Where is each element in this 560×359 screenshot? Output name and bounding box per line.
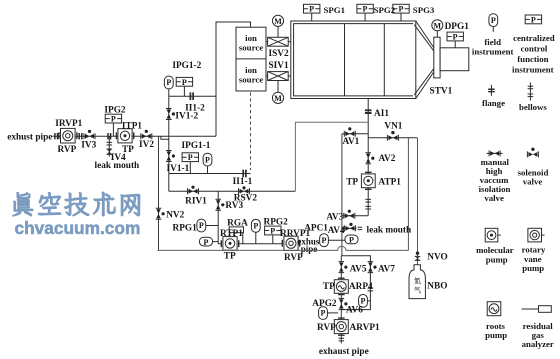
motor M of SIV1 <box>272 81 283 104</box>
svg-text:P: P <box>309 5 314 14</box>
chamber taper outer walls <box>416 21 434 99</box>
svg-text:M: M <box>434 21 442 30</box>
svg-text:RVP: RVP <box>284 253 303 263</box>
valve IV3 <box>84 130 95 139</box>
nitrogen bottle NBO <box>409 265 425 299</box>
svg-text:M: M <box>274 17 282 26</box>
gauge SPG1 centralized P <box>304 4 320 21</box>
svg-text:ion: ion <box>245 65 257 75</box>
svg-text:RVP: RVP <box>58 145 77 155</box>
wire AV1 branch <box>342 133 368 135</box>
svg-text:P: P <box>453 33 458 42</box>
valve IV4 <box>107 149 113 154</box>
svg-text:AV1: AV1 <box>342 137 359 147</box>
legend manual valve symbol <box>487 150 503 156</box>
instrument RPG2 centralized P <box>265 226 281 244</box>
instrument P pill (APC1 link) <box>345 235 358 245</box>
legend rotary vane pump symbol <box>528 228 545 242</box>
instrument IPG1-2 centralized P <box>176 77 192 86</box>
svg-text:NVO: NVO <box>427 252 447 262</box>
rotary vane pump ARVP1 (RVP) <box>334 318 348 335</box>
svg-text:NBO: NBO <box>427 282 447 292</box>
svg-text:SPG2: SPG2 <box>374 5 396 15</box>
wire dashed ion source to II1-1 <box>250 93 252 171</box>
svg-text:TP: TP <box>323 282 335 292</box>
svg-text:AV4: AV4 <box>328 226 345 236</box>
svg-text:ion: ion <box>245 33 257 43</box>
svg-text:RPG1: RPG1 <box>173 223 198 233</box>
svg-text:II1-1: II1-1 <box>233 177 253 187</box>
valve AV6 <box>339 298 348 309</box>
chamber taper inner walls <box>414 25 434 95</box>
ion source box <box>236 27 266 91</box>
svg-text:valve: valve <box>484 193 504 203</box>
svg-text:RIV1: RIV1 <box>185 196 207 206</box>
svg-text:P: P <box>491 16 496 25</box>
wire RV3 vertical to RTP1 <box>218 191 221 244</box>
gate valve SIV1 <box>266 72 291 81</box>
instrument field P (bypass) <box>359 295 371 308</box>
svg-text:bellows: bellows <box>519 102 547 112</box>
wire AV4 stub <box>342 227 357 229</box>
svg-text:ATP1: ATP1 <box>378 177 401 187</box>
svg-text:RVP: RVP <box>317 323 336 333</box>
svg-text:ARVP1: ARVP1 <box>350 323 380 333</box>
svg-text:SPG1: SPG1 <box>324 5 346 15</box>
valve NV2 <box>156 208 165 219</box>
rotary vane pump IRVP1 (RVP) <box>59 128 77 143</box>
svg-text:NV2: NV2 <box>166 210 184 220</box>
valve NVO solenoid <box>415 252 421 261</box>
vacuum chamber inner wall <box>294 24 414 96</box>
svg-text:DPG1: DPG1 <box>445 22 470 32</box>
svg-text:control: control <box>521 43 548 53</box>
svg-text:centralized: centralized <box>513 33 555 43</box>
svg-text:AV6: AV6 <box>346 305 363 315</box>
svg-text:RGA: RGA <box>227 218 248 228</box>
valve AV2 <box>365 153 374 164</box>
wire VN1 branch <box>368 137 417 139</box>
legend label molecular pump <box>476 245 514 264</box>
instrument IPG2 stem <box>112 123 114 136</box>
chamber divider 1 <box>344 24 346 96</box>
motor M of STV1 <box>432 20 443 37</box>
vacuum chamber outer wall <box>291 21 416 99</box>
legend label field instrument <box>472 37 514 57</box>
legend flange symbol <box>488 85 494 96</box>
instrument APC1 field P <box>320 234 345 247</box>
svg-text:ITP1: ITP1 <box>122 121 142 131</box>
legend field instrument symbol <box>489 14 498 32</box>
wire trunk B vertical <box>168 89 170 191</box>
svg-text:P: P <box>270 227 275 236</box>
svg-text:IV2: IV2 <box>139 140 154 150</box>
rotary vane pump RRVP1 (RVP) <box>282 236 299 250</box>
residual gas analyzer RGA <box>229 227 243 244</box>
svg-text:TP: TP <box>224 252 236 262</box>
wire RTP1 to RRVP1 <box>239 243 282 245</box>
valve AV4 <box>344 223 355 232</box>
svg-text:field: field <box>484 37 501 47</box>
valve IV1-2 <box>166 109 175 120</box>
svg-text:IV1-1: IV1-1 <box>167 164 190 174</box>
svg-text:valve: valve <box>523 177 543 187</box>
svg-text:STV1: STV1 <box>430 87 453 97</box>
svg-text:P: P <box>205 155 210 164</box>
legend roots pump symbol <box>487 302 501 316</box>
flange AI1 <box>365 110 372 113</box>
flange on exhaust wire <box>55 133 58 139</box>
legend centralized P symbol <box>525 15 541 24</box>
svg-text:pipe: pipe <box>301 244 318 254</box>
svg-text:P: P <box>253 222 258 231</box>
svg-text:IV3: IV3 <box>81 141 96 151</box>
svg-text:AV7: AV7 <box>378 265 395 275</box>
svg-text:exhaust pipe: exhaust pipe <box>319 347 369 357</box>
flange II1-1 <box>243 170 246 178</box>
svg-text:leak mouth: leak mouth <box>95 161 141 171</box>
wire RSV2 rail <box>169 190 296 192</box>
wire jog to trunk B <box>161 136 169 139</box>
legend label rotary vane pump <box>522 245 546 273</box>
svg-text:P: P <box>363 5 368 14</box>
svg-text:P: P <box>166 78 171 87</box>
valve AV5 <box>339 262 348 273</box>
leak mouth mark AV4 <box>358 227 363 229</box>
svg-text:flange: flange <box>482 98 505 108</box>
watermark 真空技术网 (vector strokes) <box>13 192 140 216</box>
legend residual gas analyzer symbol <box>522 306 552 313</box>
svg-text:chvacuum.com: chvacuum.com <box>15 218 141 238</box>
svg-text:IPG1-1: IPG1-1 <box>182 141 211 151</box>
molecular pump ITP1 (TP) <box>116 129 133 143</box>
gauge SPG2 centralized P <box>357 4 373 21</box>
valve VN1 solenoid <box>387 131 398 141</box>
svg-text:IPG1-2: IPG1-2 <box>172 61 201 71</box>
duct after STV1 <box>440 48 469 71</box>
svg-text:IPG2: IPG2 <box>104 106 126 116</box>
flange exhaust (ARVP1) <box>339 338 345 341</box>
wire IPG1-1 instrument line <box>169 162 251 174</box>
valve RIV1 <box>188 186 199 195</box>
svg-text:ISV2: ISV2 <box>269 49 290 59</box>
wire IV4 branch <box>108 136 110 156</box>
legend label centralized control function instrument <box>512 33 555 74</box>
svg-text:P: P <box>321 309 326 318</box>
svg-text:AI1: AI1 <box>374 109 389 119</box>
flange II1-2 <box>190 92 193 100</box>
svg-text:P: P <box>361 297 366 306</box>
legend label roots pump <box>485 321 507 340</box>
molecular pump ATP1 (TP) <box>361 172 375 189</box>
svg-text:AV3: AV3 <box>326 213 343 223</box>
flange before ITP1 <box>108 133 111 139</box>
instrument P pill at RTP1 inlet <box>199 237 218 247</box>
svg-text:RV3: RV3 <box>225 201 243 211</box>
wire NVO drop <box>417 138 419 266</box>
bellows IV4 branch <box>107 142 113 145</box>
svg-text:P: P <box>199 221 204 230</box>
instrument IPG1-2 field P <box>164 76 173 89</box>
legend solenoid valve symbol <box>527 148 538 158</box>
svg-text:P: P <box>204 238 209 247</box>
gauge SPG3 centralized P <box>393 4 409 21</box>
svg-text:pump: pump <box>486 254 508 264</box>
svg-text:M: M <box>274 94 282 103</box>
valve AV1 <box>344 127 355 136</box>
bellows on bypass <box>368 288 374 291</box>
instrument IPG1-1 field P <box>203 153 212 166</box>
svg-text:P: P <box>111 115 116 124</box>
svg-text:RTP1: RTP1 <box>220 229 243 239</box>
motor M of ISV2 <box>272 15 283 37</box>
svg-text:source: source <box>239 75 263 85</box>
svg-text:exhust pipe: exhust pipe <box>7 133 52 143</box>
wire right drop to rail <box>407 138 409 251</box>
wire ion source feed <box>216 22 251 136</box>
valve IV1-1 <box>166 151 175 162</box>
valve AV7 <box>368 262 377 273</box>
wire trunk A down-left <box>158 136 160 250</box>
svg-text:pump: pump <box>522 263 544 273</box>
svg-text:leak mouth: leak mouth <box>367 226 413 236</box>
svg-text:SPG3: SPG3 <box>413 5 435 15</box>
svg-text:pump: pump <box>485 330 507 340</box>
svg-text:AV5: AV5 <box>350 265 367 275</box>
svg-text:function: function <box>517 54 548 64</box>
instrument RPG2 field P <box>251 219 260 243</box>
wire AV branch vertical <box>341 134 343 256</box>
wire long thin instrument line to RSV2 rail <box>295 122 368 191</box>
legend bellows symbol <box>528 82 534 100</box>
wire main horizontal left rail <box>53 135 217 137</box>
instrument APG2 field P <box>319 307 338 320</box>
svg-text:P: P <box>182 78 187 87</box>
svg-text:P: P <box>398 5 403 14</box>
svg-text:TP: TP <box>122 145 134 155</box>
valve RV3 <box>215 199 224 210</box>
wire bottom rail with hop <box>158 246 409 250</box>
svg-text:analyzer: analyzer <box>522 339 554 349</box>
svg-text:APC1: APC1 <box>304 224 328 234</box>
valve RSV2 <box>239 186 250 194</box>
valve AV3 <box>344 210 355 219</box>
wire bypass header <box>341 256 370 310</box>
svg-text:P: P <box>349 236 354 245</box>
chamber divider 2 <box>383 24 385 96</box>
svg-text:P: P <box>322 236 327 245</box>
instrument IPG2 (centralized P) <box>105 114 121 123</box>
roots pump ARP4 <box>334 278 348 294</box>
legend label manual high vacuum isolation valve <box>479 157 511 203</box>
svg-text:IRVP1: IRVP1 <box>55 119 82 129</box>
flange after IRVP1 <box>79 133 82 139</box>
molecular pump RTP1 (TP) <box>221 237 238 251</box>
bellows below ATP1 <box>365 199 371 209</box>
svg-text:source: source <box>239 43 263 53</box>
legend label solenoid valve <box>518 167 549 186</box>
gate valve STV1 bar <box>434 37 440 78</box>
svg-text:VN1: VN1 <box>384 121 402 131</box>
legend molecular pump symbol <box>485 228 501 242</box>
svg-text:SIV1: SIV1 <box>269 61 290 71</box>
wire ATP1 trunk <box>367 138 369 216</box>
instrument DPG1 centralized P <box>447 32 463 48</box>
svg-text:P: P <box>531 15 536 24</box>
gate valve ISV2 <box>266 37 291 46</box>
svg-text:P: P <box>188 153 193 162</box>
legend label residual gas analyzer <box>522 321 554 349</box>
svg-text:instrument: instrument <box>512 64 554 74</box>
svg-text:instrument: instrument <box>472 47 514 57</box>
valve IV2 <box>141 130 152 139</box>
instrument RPG1 field P <box>197 219 218 232</box>
wire AV3 branch <box>342 215 368 217</box>
instrument IPG1-1 centralized P <box>182 153 198 162</box>
svg-text:TP: TP <box>346 177 358 187</box>
wire bottom trunk <box>340 256 342 344</box>
svg-text:IV1-2: IV1-2 <box>175 111 198 121</box>
wire IPG1-2 instrument line <box>169 86 216 96</box>
svg-text:AV2: AV2 <box>379 154 396 164</box>
wire chamber trunk down <box>367 99 369 138</box>
